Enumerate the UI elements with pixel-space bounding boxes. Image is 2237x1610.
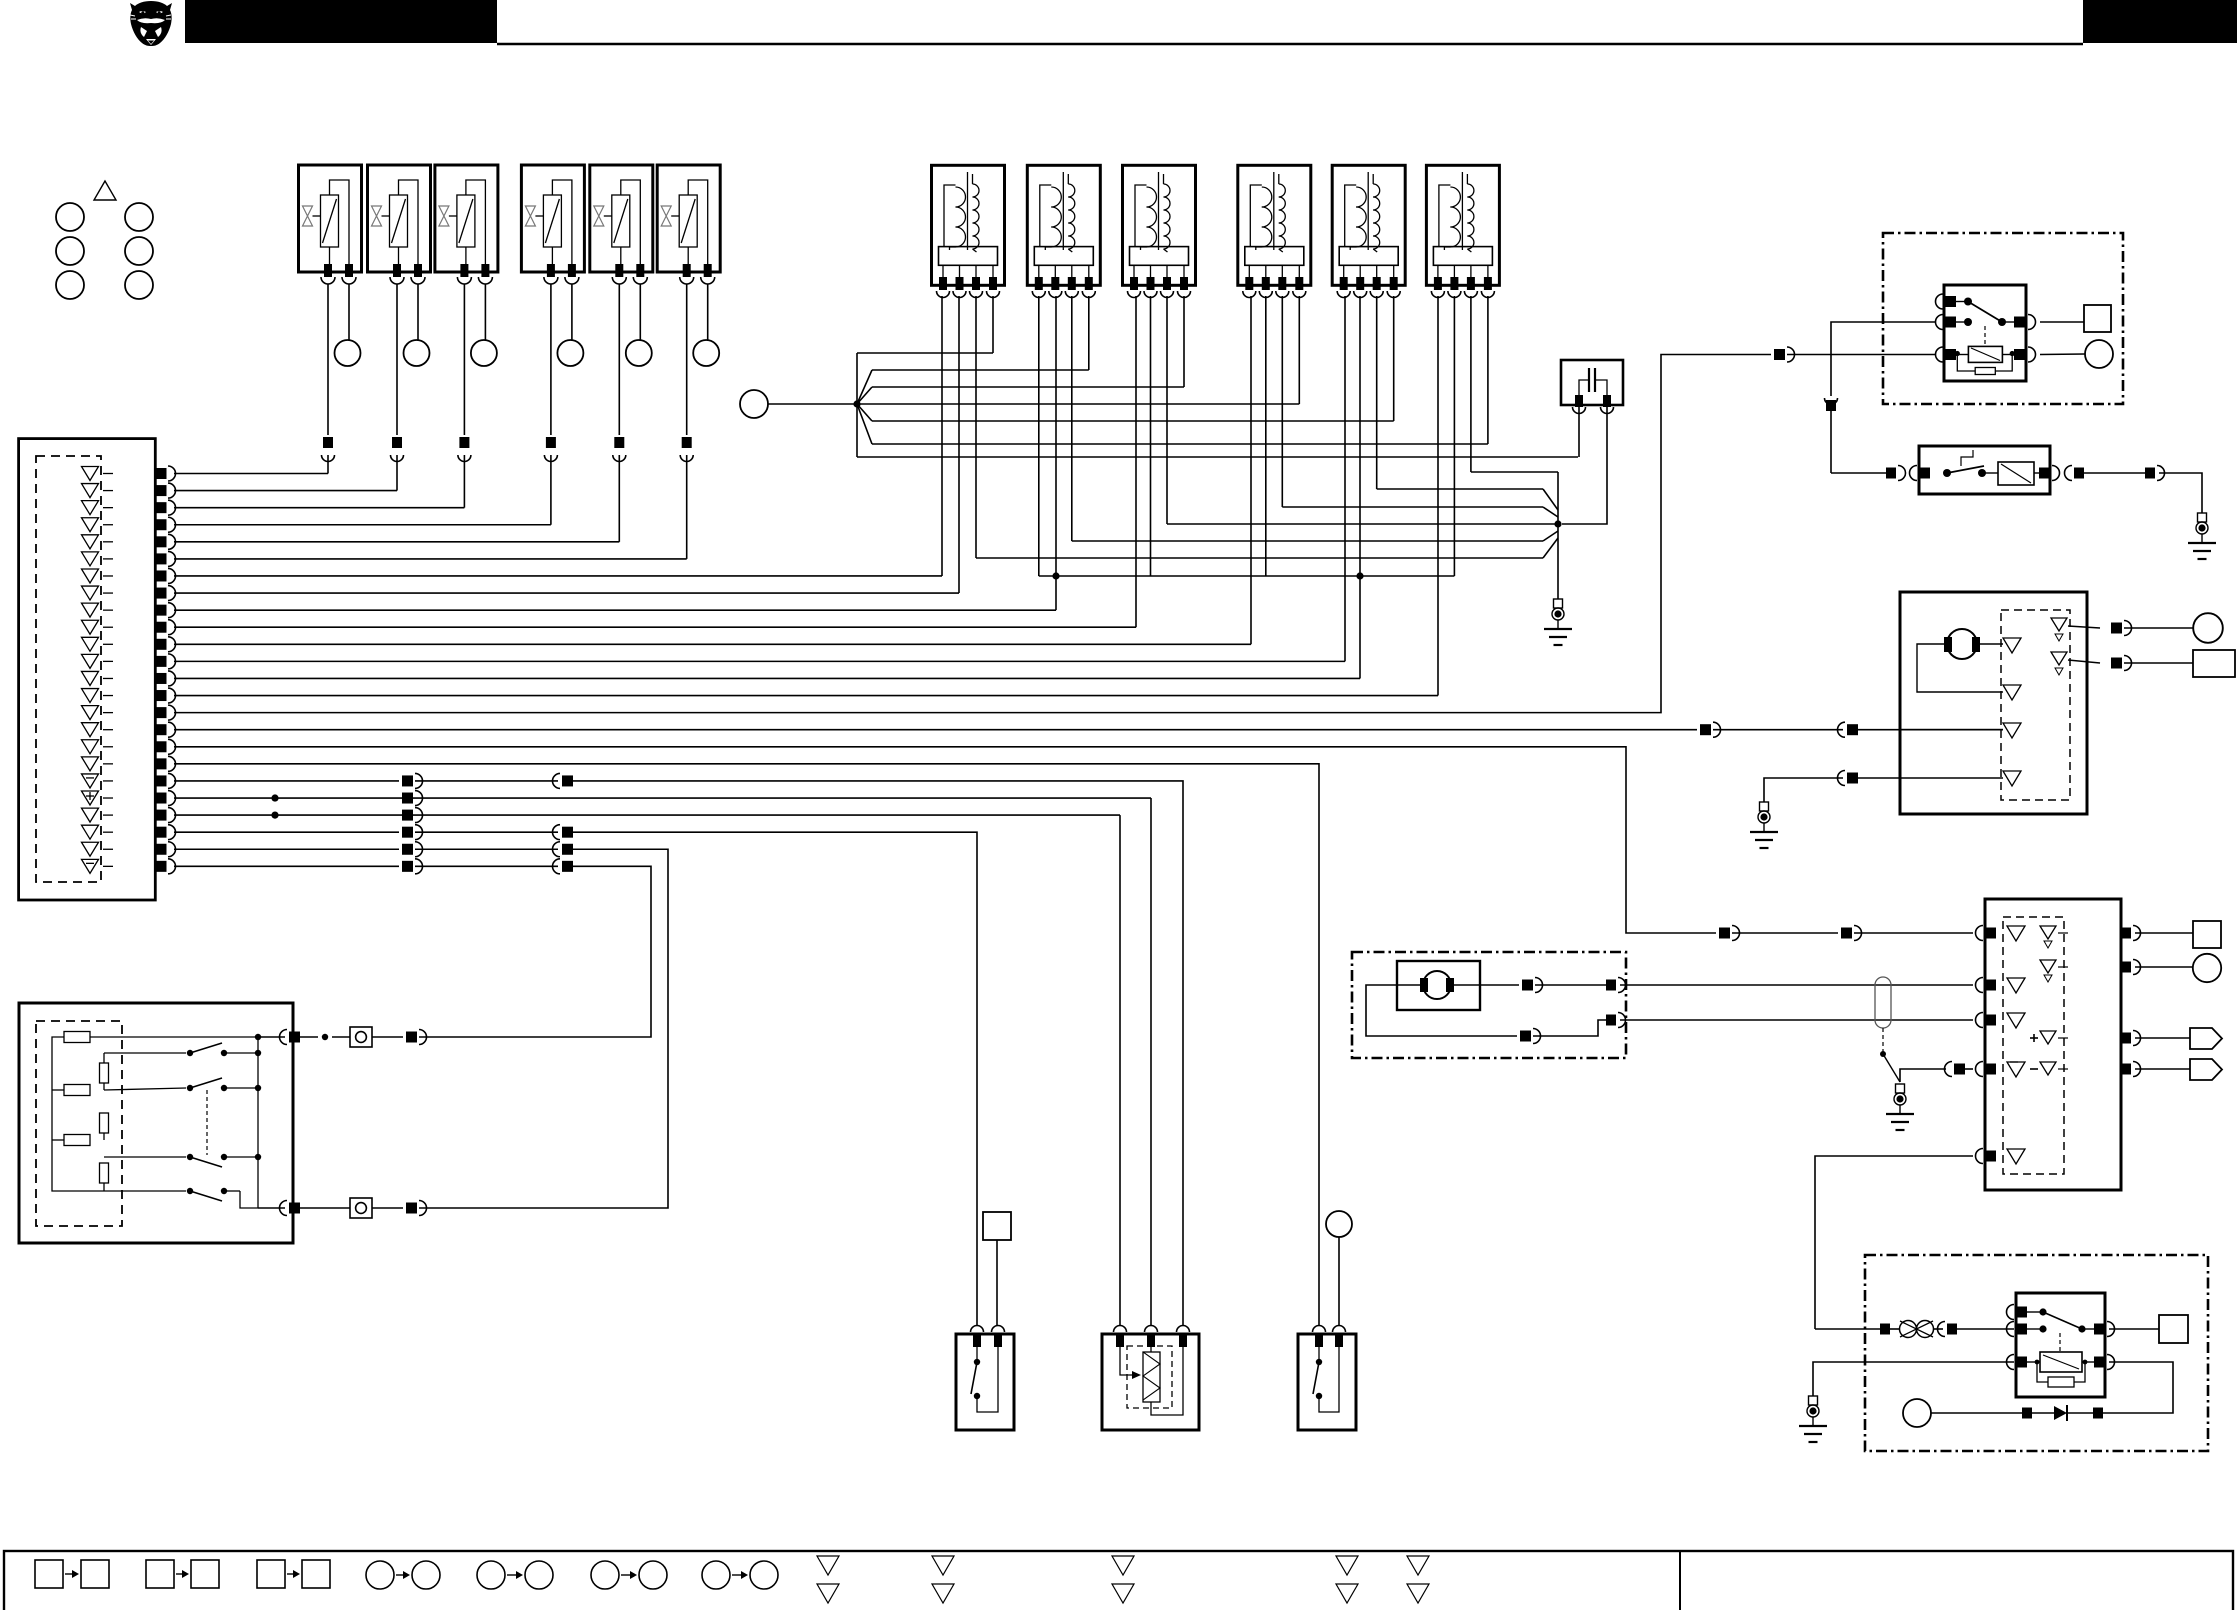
fuel tank bus (240, 1034, 261, 1208)
circle marker 4 (125, 203, 153, 231)
injector 6 output wire (707, 284, 709, 340)
splice circle injector 6 (693, 340, 719, 366)
splice circle injector 4 (557, 340, 583, 366)
fuel injector 3 (435, 165, 498, 284)
pack out arrow2 (2135, 1059, 2222, 1080)
horn diode circuit (1931, 1362, 2173, 1421)
fuel out bottom (258, 1201, 350, 1216)
riser coil3 t1 (pin10) (1135, 296, 1137, 627)
ECM wire pin19 to HO2S (174, 773, 1183, 1326)
circle marker 3 (56, 271, 84, 299)
pack pin triangles (2007, 926, 2068, 1164)
circle marker 6 (125, 271, 153, 299)
horn relay feed (1815, 1321, 2014, 1338)
throttle pos square (2193, 650, 2235, 677)
fuel tank unit (19, 1003, 293, 1243)
ECM wire pin16 to throttle (174, 722, 2003, 737)
fuel conn bottom (372, 1201, 441, 1216)
idle air control box (1352, 952, 1626, 1058)
horn circle (1903, 1399, 1931, 1427)
riser coil1 t1 (pin7) (941, 296, 943, 576)
splice circle injector 3 (471, 340, 497, 366)
IAC wire A (1454, 978, 1973, 993)
throttle pos circle (2193, 613, 2223, 643)
fuel tank switches (187, 1043, 258, 1201)
header title bar (black) (185, 0, 497, 43)
riser coil6 t1 (pin14) (1437, 296, 1439, 696)
horn relay (2007, 1293, 2115, 1397)
oxygen sensor heater (1102, 1326, 1199, 1431)
park sw circle (1326, 1211, 1352, 1326)
throttle pin3 stub (1900, 729, 2003, 731)
injector 4 drive wire (174, 284, 557, 525)
Jaguar growler logo (130, 1, 172, 46)
riser coil1 t2 (pin8) (958, 296, 960, 593)
ECM wire pin15 to relay (174, 347, 1936, 713)
riser coil5 t1 (pin12) (1344, 296, 1346, 661)
splice dot (853, 400, 860, 407)
pump relay out (2065, 466, 2202, 514)
triangle marker (94, 181, 116, 200)
splice circle injector 5 (626, 340, 652, 366)
fuel conn top (372, 1030, 441, 1045)
coil 2 supply riser (1088, 296, 1090, 370)
ECM wire pin17 to pack (174, 747, 1973, 941)
ECM connector pins (triangles) (82, 467, 114, 874)
ground (horn relay) (1799, 1396, 1827, 1442)
coil 1 supply riser (992, 296, 994, 353)
capacitor right lead (1562, 407, 1607, 524)
IAC wire B (1366, 985, 1973, 1044)
ECM wire pin11 (174, 643, 1251, 645)
pump relay (1910, 446, 2060, 494)
injector 2 output wire (417, 284, 419, 340)
main relay (1936, 285, 2036, 381)
ECM pin terminals (156, 466, 176, 874)
ignition coil 1 (932, 165, 1005, 297)
fuel splice bottom (350, 1198, 372, 1218)
riser coil5 t2 (pin13) (1356, 296, 1363, 678)
sensor bus segment (1039, 296, 1455, 576)
ECM wire pin24 to tank (174, 859, 651, 1037)
circle marker 5 (125, 237, 153, 265)
ECM wire pin8 (174, 592, 959, 594)
header rule (497, 43, 2083, 46)
throttle motor wires (1917, 644, 2003, 692)
injector 3 drive wire (174, 284, 471, 508)
coil 6 supply riser (1487, 296, 1489, 444)
throttle pin4 wire (1764, 771, 2003, 803)
fuel injector 1 (299, 165, 362, 284)
pack left pins (1976, 926, 1996, 1164)
injector 3 output wire (484, 284, 486, 340)
pack pin5 wire (1815, 1156, 1973, 1329)
ECM wire pin7 (174, 575, 942, 577)
relay feed wire (1825, 322, 1937, 473)
circle marker 2 (56, 237, 84, 265)
shield to pack pin (1900, 1062, 1973, 1083)
ignition coil 5 (1332, 165, 1405, 297)
throttle right pin2 wire (2068, 656, 2193, 671)
throttle motor (1944, 629, 1980, 659)
ECM wire pin21 to HO2S (174, 808, 1120, 1326)
coil ground risers (976, 296, 1471, 558)
splice circle injector 1 (335, 340, 361, 366)
ECM wire pin18 to switch (174, 764, 1319, 1326)
ECM wire pin23 to tank (174, 842, 668, 1208)
ECM wire pin14 (174, 695, 1438, 697)
fuel tank internals (52, 1032, 258, 1192)
ground (throttle) (1750, 802, 1778, 848)
coil 5 supply riser (1393, 296, 1395, 421)
instrument pack (1985, 899, 2121, 1190)
injector 6 drive wire (174, 284, 693, 559)
pack out circle (2135, 954, 2221, 982)
relay output square (2084, 305, 2111, 332)
injector 5 drive wire (174, 284, 626, 542)
suppression capacitor (1561, 360, 1623, 414)
ECM wire pin13 (174, 677, 1360, 679)
pack right pins (2122, 926, 2141, 1077)
throttle pins (2003, 618, 2067, 786)
star junction dot (1554, 520, 1561, 527)
ignition coil 4 (1238, 165, 1311, 297)
shield drain (1880, 1028, 1900, 1082)
throttle right pin1 wire (2068, 621, 2193, 636)
horn relay out square (2109, 1315, 2188, 1343)
ground (pump relay) (2188, 513, 2216, 559)
pack out square (2135, 921, 2221, 948)
injector 4 output wire (571, 284, 573, 340)
coil ground bus (976, 472, 1558, 558)
coil supply fan bus (857, 353, 1578, 457)
star ground lead (1557, 524, 1559, 599)
throttle body (1900, 592, 2087, 814)
injector 1 drive wire (174, 284, 335, 474)
coil supply splice circle (740, 390, 768, 418)
ECM (engine control module) (19, 439, 156, 900)
horn relay component box (1865, 1255, 2208, 1451)
pump relay feed (1831, 466, 1906, 481)
twisted pair marker (1875, 977, 1891, 1028)
splice circle injector 2 (404, 340, 430, 366)
sensor bus riser c3t2 (1150, 296, 1152, 576)
ignition coil 2 (1027, 165, 1100, 297)
pack out arrow1 (2135, 1028, 2222, 1049)
fuel injector 4 (521, 165, 584, 284)
legend box (4, 1551, 2233, 1610)
main relay component box (1883, 233, 2123, 404)
riser coil4 t1 (pin11) (1250, 296, 1252, 644)
inertia switch (956, 1326, 1014, 1431)
horn relay gnd wire (1813, 1362, 2014, 1396)
wire relay to circle (2040, 353, 2085, 356)
fuel injector 6 (657, 165, 720, 284)
header right black bar (2083, 0, 2237, 43)
idle air motor (1397, 961, 1480, 1010)
sensor bus riser c4t2 (1265, 296, 1267, 576)
circle marker 1 (56, 203, 84, 231)
injector 2 drive wire (174, 284, 404, 491)
ground (shield) (1886, 1084, 1914, 1130)
wire splice feed (768, 403, 857, 405)
ignition coil 3 (1123, 165, 1196, 297)
ECM wire pin9 (174, 609, 1056, 611)
ECM wire pin12 (174, 660, 1345, 662)
injector 1 output wire (348, 284, 350, 340)
fuel splice top (350, 1027, 372, 1047)
ignition coil 6 (1426, 165, 1499, 297)
park switch (1298, 1326, 1356, 1431)
riser coil2 t2 (pin9) (1052, 296, 1059, 610)
coil 4 supply riser (1298, 296, 1300, 404)
fuel injector 5 (590, 165, 653, 284)
ground (coil bus) (1544, 599, 1572, 645)
fuel out top (258, 1030, 350, 1045)
ECM wire pin10 (174, 626, 1136, 628)
wire relay to square (2040, 321, 2084, 323)
ECM wire pin22 to switch (174, 825, 977, 1326)
inertia sw out square (983, 1212, 1011, 1326)
legend symbols (35, 1556, 1429, 1603)
coil 3 supply riser (1183, 296, 1185, 387)
injector 5 output wire (639, 284, 641, 340)
capacitor left lead (1578, 407, 1580, 457)
fuel injector 2 (368, 165, 431, 284)
relay sense circle (2085, 340, 2113, 368)
ECM wire pin20 to HO2S (174, 791, 1151, 1326)
